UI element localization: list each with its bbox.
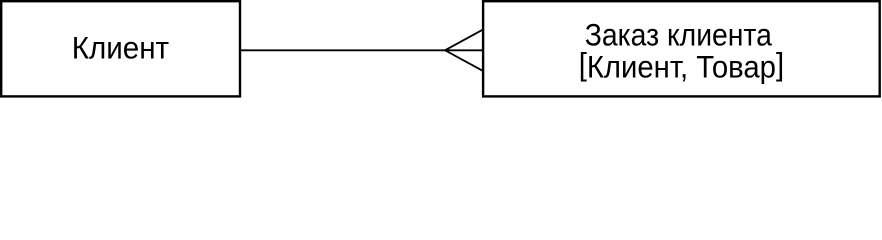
svg-text:Клиент: Клиент [72, 30, 169, 65]
svg-text:[Клиент, Товар]: [Клиент, Товар] [579, 47, 784, 85]
svg-text:Заказ клиента: Заказ клиента [585, 18, 772, 53]
